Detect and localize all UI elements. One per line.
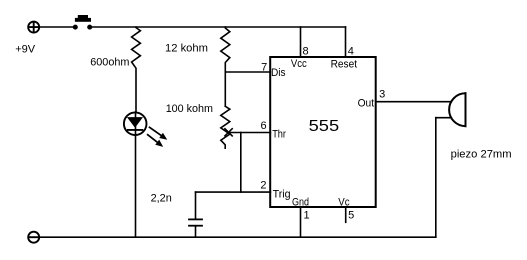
- svg-text:100 kohm: 100 kohm: [166, 103, 213, 115]
- svg-text:Out: Out: [358, 97, 375, 109]
- svg-text:1: 1: [304, 210, 310, 222]
- svg-text:Vc: Vc: [338, 197, 350, 209]
- svg-text:4: 4: [348, 45, 354, 57]
- svg-text:+9V: +9V: [15, 44, 36, 56]
- svg-text:8: 8: [303, 45, 309, 57]
- svg-text:Dis: Dis: [271, 67, 286, 79]
- svg-text:2,2n: 2,2n: [151, 193, 172, 205]
- svg-text:Vcc: Vcc: [291, 58, 307, 70]
- svg-text:Gnd: Gnd: [292, 197, 309, 209]
- svg-text:2: 2: [260, 180, 266, 192]
- svg-text:piezo 27mm: piezo 27mm: [451, 148, 512, 160]
- svg-text:5: 5: [348, 210, 354, 222]
- svg-text:3: 3: [379, 88, 385, 100]
- svg-text:12 kohm: 12 kohm: [165, 43, 208, 55]
- svg-text:7: 7: [261, 62, 267, 74]
- svg-text:600ohm: 600ohm: [90, 57, 129, 69]
- svg-text:555: 555: [309, 118, 340, 135]
- svg-text:6: 6: [260, 120, 266, 132]
- svg-text:Reset: Reset: [331, 58, 358, 70]
- svg-text:Trig: Trig: [273, 188, 291, 200]
- svg-text:Thr: Thr: [272, 129, 286, 141]
